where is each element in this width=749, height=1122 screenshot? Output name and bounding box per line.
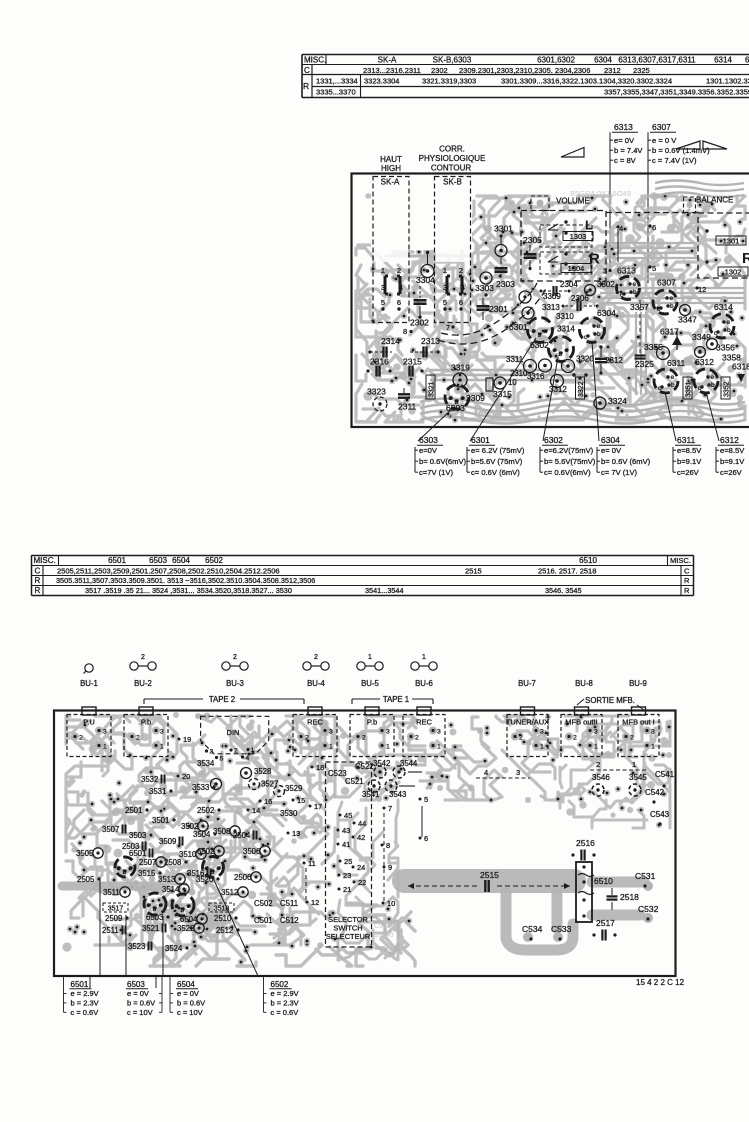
svg-text:e = 2.9V: e = 2.9V [71, 989, 99, 998]
svg-text:6510: 6510 [579, 556, 597, 565]
leader wire 6302 to table [543, 357, 558, 441]
connector MFB out II [561, 707, 602, 757]
svg-text:6312: 6312 [720, 435, 739, 445]
svg-text:6: 6 [424, 834, 428, 843]
svg-text:PHYSIOLOGIQUE: PHYSIOLOGIQUE [419, 154, 486, 163]
svg-text:6312: 6312 [695, 357, 714, 367]
transistor 6311 [654, 358, 686, 393]
connector SK-B dashed box [435, 177, 471, 323]
capacitor 2309 [466, 378, 493, 403]
label CORR. PHYSIOLOGIQUE CONTOUR [419, 145, 486, 173]
svg-text:2315: 2315 [403, 357, 422, 367]
svg-text:3523: 3523 [128, 942, 145, 951]
svg-text:3505.3511,3507.3503.3509.3501.: 3505.3511,3507.3503.3509.3501. 3513 ~351… [56, 576, 315, 585]
svg-text:BU-7: BU-7 [518, 679, 536, 688]
svg-text:3319: 3319 [451, 363, 470, 373]
svg-text:4: 4 [246, 755, 250, 762]
capacitor 2313 [410, 336, 440, 358]
transistor 6301 [509, 318, 553, 343]
svg-text:3323: 3323 [367, 387, 386, 397]
svg-text:7: 7 [388, 804, 392, 813]
svg-text:1301.1302.33: 1301.1302.33 [706, 76, 749, 85]
svg-text:2517: 2517 [596, 918, 615, 928]
svg-text:3: 3 [443, 285, 447, 292]
transistor 6312 [694, 357, 718, 393]
connector REC (tape1) [403, 707, 445, 757]
transistor 6502 circle [203, 857, 224, 878]
svg-text:BU-9: BU-9 [629, 679, 647, 688]
svg-text:e=6.2V(75mV): e=6.2V(75mV) [544, 446, 594, 455]
resistor 3313 [522, 303, 560, 319]
svg-text:1303: 1303 [570, 232, 587, 241]
svg-text:C511: C511 [280, 899, 298, 908]
svg-text:b: b [181, 907, 185, 914]
leader wires transistors to tables [99, 878, 101, 976]
svg-text:b = 2.3V: b = 2.3V [271, 998, 299, 1007]
svg-text:3541...3544: 3541...3544 [365, 586, 404, 595]
svg-text:b: b [671, 382, 675, 389]
svg-text:c=26V: c=26V [677, 468, 700, 477]
transistor 6304 [572, 373, 587, 379]
resistors 3526-3530 [197, 759, 302, 818]
svg-text:1: 1 [251, 747, 255, 754]
capacitor 2301 [446, 298, 508, 332]
connector DIN [201, 716, 269, 762]
svg-text:3: 3 [103, 729, 107, 736]
capacitor 2303 [495, 257, 516, 289]
svg-text:2512: 2512 [216, 926, 233, 935]
svg-text:3304: 3304 [416, 275, 435, 285]
svg-text:e: e [711, 374, 715, 381]
svg-text:3503: 3503 [129, 831, 146, 840]
svg-text:1: 1 [422, 654, 426, 661]
resistor 3358 [722, 353, 741, 363]
transistor voltage table 6313 [610, 122, 643, 165]
svg-text:2: 2 [362, 735, 366, 742]
svg-text:e: e [461, 395, 465, 402]
svg-text:SK-B: SK-B [443, 178, 462, 187]
svg-text:C531: C531 [635, 871, 656, 881]
svg-text:2314: 2314 [381, 336, 400, 346]
svg-text:c = 8V: c = 8V [614, 156, 637, 165]
resistor 3315 [493, 377, 512, 399]
resistor 6314 [710, 302, 734, 338]
svg-text:13440: 13440 [374, 932, 394, 939]
svg-text:c = 7.4V (1V): c = 7.4V (1V) [652, 156, 697, 165]
svg-text:b = 0.6V (1.4mV): b = 0.6V (1.4mV) [652, 146, 710, 155]
transistor voltage table 6503 [126, 976, 162, 1017]
svg-text:3528: 3528 [254, 767, 271, 776]
capacitor 2518 [607, 888, 640, 910]
svg-text:43: 43 [342, 826, 350, 835]
capacitor 2310 + resistor 3316 [508, 369, 544, 387]
svg-text:MFB outII: MFB outII [565, 718, 598, 727]
svg-text:3511: 3511 [103, 888, 120, 897]
svg-text:b= 0.6V (6mV): b= 0.6V (6mV) [601, 457, 651, 466]
svg-text:3509: 3509 [159, 837, 176, 846]
capacitor 2315 [403, 357, 424, 377]
svg-text:1: 1 [381, 266, 385, 275]
svg-text:6510: 6510 [594, 876, 613, 886]
svg-text:2313...2316.2311: 2313...2316.2311 [363, 66, 421, 75]
switch SK-B contacts 1-6 [443, 266, 465, 311]
svg-text:2311: 2311 [398, 402, 417, 412]
resistor 3324 [594, 396, 627, 409]
svg-text:SELECTEUR: SELECTEUR [326, 932, 370, 941]
svg-text:P.b: P.b [367, 718, 377, 727]
svg-text:e: e [671, 374, 675, 381]
svg-text:1: 1 [651, 744, 655, 751]
svg-text:6502: 6502 [205, 556, 223, 565]
svg-text:C521: C521 [345, 777, 364, 786]
svg-text:e: e [544, 328, 548, 335]
svg-text:e: e [670, 295, 674, 302]
svg-text:3: 3 [381, 285, 385, 292]
transistor voltage table 6501 [64, 976, 99, 1017]
svg-text:6314: 6314 [714, 56, 732, 65]
svg-text:3: 3 [516, 768, 520, 777]
resistor 6318 [732, 362, 749, 383]
svg-text:C523: C523 [328, 769, 347, 778]
leader wire 6303 to table [418, 409, 452, 441]
resistor 3352 (boxed vertical) [721, 377, 731, 399]
transistor 6504 circle [172, 894, 194, 916]
svg-text:2304: 2304 [560, 280, 578, 289]
svg-text:e = 0V: e = 0V [127, 989, 149, 998]
svg-text:3529: 3529 [285, 784, 302, 793]
svg-text:3: 3 [603, 267, 607, 276]
svg-text:3352: 3352 [724, 381, 731, 397]
svg-text:2505,2511,2503,2509,2501.2507,: 2505,2511,2503,2509,2501.2507,2508,2502.… [57, 566, 280, 575]
capacitor 2302 [403, 286, 429, 336]
capacitor 2325 [635, 300, 655, 369]
treble slider pictogram (left triangle) [561, 148, 584, 158]
boxed resistor 3518 [209, 903, 234, 913]
pin 4 [616, 224, 623, 262]
svg-text:P.U: P.U [83, 718, 95, 727]
svg-text:21: 21 [343, 885, 351, 894]
svg-text:C9114: C9114 [374, 923, 394, 930]
svg-text:CORR.: CORR. [439, 145, 465, 154]
svg-text:2510: 2510 [214, 914, 232, 923]
IC 6510 (boxed) [576, 862, 613, 922]
svg-text:1331,...3334: 1331,...3334 [316, 76, 358, 85]
svg-text:3335...3370: 3335...3370 [316, 88, 356, 97]
svg-text:3: 3 [160, 729, 164, 736]
resistor 3319 [451, 363, 470, 388]
svg-text:6318: 6318 [732, 362, 749, 372]
svg-text:3321.3319,3303: 3321.3319,3303 [422, 76, 476, 85]
transistor 6307 [653, 278, 677, 315]
transistor voltage table 6302 [540, 435, 596, 477]
svg-text:44: 44 [358, 819, 366, 828]
wire traces lower board (copper pattern) [62, 712, 672, 966]
svg-text:3530: 3530 [280, 809, 298, 818]
svg-text:CONTOUR: CONTOUR [431, 164, 472, 173]
pin column wires [421, 806, 423, 837]
svg-text:3351: 3351 [686, 381, 693, 397]
leader wire 6313 to board [609, 132, 611, 271]
svg-text:c=7V (1V): c=7V (1V) [419, 468, 453, 477]
svg-text:8: 8 [403, 327, 407, 336]
svg-text:e: e [633, 281, 637, 288]
svg-text:3: 3 [651, 729, 655, 736]
resistor 3314 [557, 325, 575, 334]
svg-text:2302: 2302 [431, 66, 448, 75]
svg-text:e: e [159, 902, 163, 909]
svg-text:b = 0.6V: b = 0.6V [177, 998, 205, 1007]
resistor 3320 [576, 355, 594, 364]
capacitor C531 [635, 871, 656, 888]
svg-text:R: R [35, 586, 41, 595]
svg-text:1: 1 [443, 266, 447, 275]
svg-text:BALANCE: BALANCE [696, 196, 733, 205]
transistor voltage table 6307 [648, 122, 710, 165]
leader wire 6304 to table [592, 341, 599, 441]
transistor voltage table 6312 [716, 435, 745, 477]
svg-text:2507: 2507 [139, 858, 156, 867]
svg-text:12: 12 [311, 898, 319, 907]
transistor 6501 circle [115, 857, 135, 877]
svg-text:6501: 6501 [108, 556, 126, 565]
svg-text:2: 2 [141, 654, 145, 661]
svg-text:3513: 3513 [158, 875, 175, 884]
svg-text:R: R [35, 576, 41, 585]
svg-text:2516: 2516 [576, 838, 595, 848]
connector SK-A dashed box [373, 177, 409, 323]
svg-text:4: 4 [399, 285, 403, 292]
svg-text:6501: 6501 [71, 980, 89, 989]
svg-text:DIN: DIN [227, 728, 240, 737]
svg-text:2502: 2502 [197, 806, 214, 815]
svg-text:3313: 3313 [542, 303, 560, 312]
svg-text:MISC.: MISC. [670, 556, 691, 565]
svg-text:6: 6 [397, 298, 401, 307]
svg-text:3515: 3515 [138, 869, 156, 878]
svg-text:3531: 3531 [149, 787, 166, 796]
svg-text:b = 0.6V: b = 0.6V [127, 998, 155, 1007]
svg-text:3524: 3524 [165, 944, 183, 953]
svg-text:3302: 3302 [597, 280, 615, 289]
svg-text:3517 .3519 .35 21... 3524 ,353: 3517 .3519 .35 21... 3524 ,3531... 3534.… [85, 586, 292, 595]
connector P.U [67, 707, 111, 757]
svg-text:c= 7V (1V): c= 7V (1V) [601, 468, 638, 477]
resistor 3321 (boxed vertical) [426, 375, 436, 399]
pot mounting tabs and top-band traces [531, 196, 549, 211]
resistor 3545 [629, 773, 647, 796]
svg-text:c = 10V: c = 10V [177, 1008, 203, 1017]
svg-text:4: 4 [484, 768, 488, 777]
wire traces upper board (copper pattern) [356, 182, 747, 424]
svg-text:HIGH: HIGH [381, 164, 401, 173]
connector REC (tape2) [293, 707, 337, 757]
svg-text:6317: 6317 [660, 327, 679, 337]
boxed resistor 3517 [103, 903, 128, 913]
dashed signal wire to volume pot [438, 283, 546, 344]
svg-text:2: 2 [519, 735, 523, 742]
svg-text:14: 14 [252, 806, 260, 815]
leader wire 6311 to table [665, 392, 676, 441]
resistor 3356 [707, 339, 736, 353]
svg-text:3356: 3356 [716, 343, 735, 353]
svg-text:SK-A: SK-A [381, 178, 400, 187]
svg-text:2309.2301,2303,2310,2305. 2304: 2309.2301,2303,2310,2305. 2304,2306 [459, 66, 590, 75]
svg-text:b= 0.6V(6mV): b= 0.6V(6mV) [419, 457, 467, 466]
svg-text:BU-5: BU-5 [361, 679, 379, 688]
svg-text:5: 5 [443, 298, 447, 307]
svg-text:L: L [585, 218, 593, 233]
svg-text:3507: 3507 [102, 825, 119, 834]
capacitor 2306 [562, 294, 599, 311]
svg-text:C512: C512 [280, 916, 299, 925]
svg-text:3545: 3545 [629, 773, 647, 782]
svg-text:5: 5 [381, 298, 385, 307]
resistor 3357 [630, 302, 660, 312]
svg-text:3501: 3501 [152, 816, 169, 825]
connector P.b (tape2) [124, 707, 168, 757]
svg-text:2511: 2511 [102, 926, 119, 935]
svg-text:C522: C522 [355, 762, 374, 771]
svg-text:b = 7.4V: b = 7.4V [614, 146, 643, 155]
parts cross-reference table (middle) [32, 555, 694, 595]
capacitor C534 [522, 924, 543, 941]
svg-text:11: 11 [308, 859, 316, 868]
svg-text:e: e [217, 865, 221, 872]
svg-text:6503: 6503 [127, 980, 145, 989]
svg-text:MISC.: MISC. [34, 556, 56, 565]
svg-text:6313,6307,6317,6311: 6313,6307,6317,6311 [618, 56, 696, 65]
svg-text:17: 17 [314, 802, 322, 811]
transistor voltage table 6311 [673, 435, 702, 477]
svg-text:b: b [711, 382, 715, 389]
svg-text:3321: 3321 [429, 381, 436, 397]
svg-text:1: 1 [368, 654, 372, 661]
svg-text:12: 12 [698, 285, 706, 294]
svg-text:2518: 2518 [620, 892, 639, 902]
svg-text:3546: 3546 [592, 773, 610, 782]
svg-text:6304: 6304 [601, 435, 620, 445]
svg-text:b = 2.3V: b = 2.3V [71, 998, 99, 1007]
capacitor 2314 [368, 336, 400, 358]
selector pins 16-21 etc [177, 735, 429, 908]
pin wires 4,3 [476, 768, 530, 778]
svg-text:4: 4 [619, 224, 623, 233]
svg-text:2508: 2508 [164, 858, 181, 867]
leader wire 6312 to table [706, 392, 719, 441]
connector MFB out I [618, 707, 659, 757]
lower PCB board outline [54, 711, 676, 977]
svg-text:BU-1: BU-1 [80, 679, 98, 688]
svg-text:c = 10V: c = 10V [127, 1008, 153, 1017]
svg-text:C543: C543 [650, 810, 670, 819]
transistor 6304 circle [580, 308, 617, 343]
svg-text:3: 3 [437, 729, 441, 736]
svg-text:e = 0 V: e = 0 V [652, 136, 677, 145]
svg-text:6301: 6301 [509, 322, 528, 332]
svg-text:3311: 3311 [506, 355, 524, 364]
capacitor 2305 [523, 235, 542, 270]
svg-text:b=5.6V (75mV): b=5.6V (75mV) [471, 457, 523, 466]
svg-text:3310: 3310 [556, 312, 574, 321]
svg-text:2: 2 [573, 735, 577, 742]
resistor 3302 [585, 280, 616, 296]
TAPE 2 bracket [144, 695, 304, 704]
svg-text:C: C [35, 566, 41, 575]
resistor 3303 [475, 272, 494, 297]
svg-text:6313: 6313 [617, 266, 636, 276]
socket BU-6 [411, 654, 437, 688]
svg-text:6313: 6313 [614, 122, 633, 132]
svg-text:MFB out I: MFB out I [622, 718, 655, 727]
socket BU-4 [303, 654, 329, 688]
svg-text:C542: C542 [645, 788, 665, 797]
socket BU-1 [80, 664, 98, 688]
svg-text:6311: 6311 [667, 358, 686, 368]
svg-text:REC: REC [307, 718, 323, 727]
svg-text:BU-6: BU-6 [415, 679, 433, 688]
svg-text:e: e [565, 347, 569, 354]
resistor 3311 [506, 355, 575, 388]
socket BU-3 [222, 654, 248, 688]
svg-text:2: 2 [459, 266, 463, 275]
resistor 3312 [549, 385, 567, 394]
svg-text:3324: 3324 [608, 396, 627, 406]
TAPE 1 bracket [352, 695, 433, 704]
svg-text:R: R [684, 576, 690, 585]
svg-text:6307: 6307 [652, 122, 671, 132]
svg-text:45: 45 [344, 811, 352, 820]
svg-text:1302: 1302 [725, 268, 742, 277]
svg-text:2303: 2303 [496, 279, 515, 289]
svg-text:3323.3304: 3323.3304 [364, 76, 399, 85]
svg-text:e= 0V: e= 0V [614, 136, 635, 145]
svg-text:2313: 2313 [421, 336, 440, 346]
upper PCB board outline [352, 174, 749, 428]
svg-text:5: 5 [424, 795, 428, 804]
svg-text:6307: 6307 [657, 278, 676, 288]
svg-text:6301,6302: 6301,6302 [537, 56, 575, 65]
svg-text:1: 1 [329, 744, 333, 751]
connector TUNER/AUX [506, 707, 549, 757]
svg-text:b= 5.6V(75mV): b= 5.6V(75mV) [544, 457, 596, 466]
svg-text:1: 1 [540, 744, 544, 751]
potentiometer BALANCE (1301/1302) [696, 196, 749, 279]
SORTIE MFB bracket [577, 696, 644, 710]
capacitor C543 [650, 810, 670, 826]
switch SK-A contacts 1-6 [381, 266, 403, 311]
resistor 3304 [416, 251, 435, 285]
svg-text:3534: 3534 [197, 759, 215, 768]
svg-text:3309: 3309 [543, 292, 561, 301]
svg-text:3316: 3316 [527, 372, 544, 381]
transistor voltage table 6303 [415, 435, 467, 477]
svg-text:b: b [559, 351, 563, 358]
potentiometer VOLUME (1303/1304) [521, 197, 606, 282]
transistor 6313 [603, 266, 640, 300]
svg-text:2: 2 [397, 266, 401, 275]
svg-text:6: 6 [459, 298, 463, 307]
svg-text:6311: 6311 [677, 435, 696, 445]
svg-text:e = 0V: e = 0V [177, 989, 199, 998]
svg-text:3533: 3533 [192, 783, 209, 792]
svg-text:e= 6.2V (75mV): e= 6.2V (75mV) [471, 446, 525, 455]
svg-text:SK-A: SK-A [378, 56, 397, 65]
capacitor C532 [638, 904, 659, 921]
svg-text:3: 3 [329, 729, 333, 736]
svg-text:REC: REC [416, 718, 432, 727]
svg-text:25: 25 [344, 857, 352, 866]
svg-text:HAUT: HAUT [380, 155, 402, 164]
